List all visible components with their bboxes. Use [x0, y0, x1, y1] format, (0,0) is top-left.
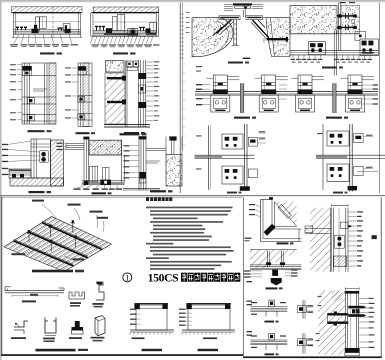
detail A4 left labels: [65, 67, 78, 118]
detail B4 hanger rods with bolt assemblies: [334, 2, 357, 76]
bottom-left sheet left border: [1, 198, 3, 356]
detail B5: horizontal rail lines: [195, 66, 378, 95]
bottom-left sheet bottom border: [1, 354, 243, 356]
detail A3 left labels: [10, 64, 22, 120]
detail B2 diagonal braces and panel edge: [213, 20, 240, 46]
detail A8: jamb section with concrete column: [123, 136, 182, 190]
elevation: transverse section box: [129, 303, 174, 339]
isometric ceiling panel field: [4, 217, 112, 272]
bottom-right sheet bottom border: [243, 356, 382, 358]
elevation longitudinal caption: [198, 349, 219, 351]
circled detail number 1: [123, 273, 132, 283]
detail A5 right leader labels: [146, 61, 159, 121]
detail B5 assembly 2: [255, 75, 288, 112]
detail D6b caption: [265, 353, 279, 355]
detail D4: upper wall vertical section with mullion: [305, 204, 353, 272]
detail D6a: horizontal stack joint upper: [250, 300, 287, 317]
detail D6a caption: [265, 321, 279, 323]
detail B7 caption: [333, 192, 348, 194]
detail B3: sloped concrete mass with anchor and brace: [251, 18, 290, 57]
detail A1: wall horizontal section, hatched slab band: [12, 7, 83, 39]
detail B5 labels: [196, 84, 378, 105]
scan edge top: [0, 0, 385, 3]
detail A6: base corner section with hatched slab: [9, 139, 64, 186]
profile: galvanized box piece: [91, 316, 106, 342]
detail A1 leader lines and labels: [10, 34, 78, 47]
detail D6b: horizontal stack joint lower: [250, 333, 287, 350]
detail B4: roof slab concrete (speckled rects): [290, 6, 360, 34]
detail B6 caption: [227, 192, 242, 194]
detail A8 bottom caption: [150, 190, 173, 192]
detail A7 leaders and labels: [57, 143, 123, 190]
detail B4 ceiling lines: [290, 51, 378, 55]
main title 150CS...: [148, 271, 241, 284]
detail B7: vertical mullion joint (right): [316, 124, 385, 192]
detail B5 captions: [234, 117, 348, 119]
detail A7: soffit corner section with dense hatch: [66, 137, 125, 185]
detail B4 right bracket cluster: [355, 31, 379, 55]
detail D7: lower wall section dense hatch: [318, 287, 366, 356]
elevation: longitudinal section box: [181, 303, 235, 339]
detail D5b: mullion cross joint lower: [297, 333, 313, 353]
detail A4 caption: [76, 132, 96, 134]
detail D2 labels: [244, 269, 298, 277]
isometric ceiling leader labels: [12, 200, 109, 261]
profile: carrier runner section: [69, 292, 85, 307]
detail B5 assembly 4: [341, 75, 374, 112]
isometric caption: [32, 270, 84, 273]
profile: J channel clip: [43, 318, 56, 343]
detail A5 caption: [120, 133, 147, 135]
detail A8 left labels: [124, 145, 140, 178]
detail B5 center glass bar right pair: [333, 83, 336, 113]
profile: 150C panel long section: [5, 287, 64, 303]
top-left sheet right border with ticks: [180, 3, 189, 193]
detail A2 leader lines and labels: [92, 44, 160, 47]
profile: hook bracket: [11, 321, 28, 339]
detail B5 center glass bar left pair: [240, 83, 243, 113]
profile: tee profile: [69, 321, 83, 339]
detail B6: vertical mullion joint (left): [195, 124, 267, 191]
detail A2 caption: [113, 52, 136, 54]
detail A4: vertical wall section V2: [78, 63, 92, 127]
detail B2: curved concrete parapet mass (speckled): [192, 18, 233, 57]
detail A8 top caption: [124, 132, 145, 134]
detail D4 right leader labels: [349, 211, 377, 266]
detail B5 assembly 3: [291, 75, 324, 112]
svg-text:1: 1: [125, 274, 129, 283]
isometric ceiling hangers: [27, 220, 78, 252]
notes text lines: [146, 207, 234, 270]
detail B5 assembly 1: [206, 75, 239, 112]
detail D1 caption: [277, 242, 294, 244]
detail A2: wall horizontal section with ground hatch: [90, 7, 159, 44]
detail B row1 captions: [228, 62, 343, 69]
detail D2 caption: [266, 287, 283, 289]
bottom sheets divider: [242, 198, 244, 357]
notes heading: [146, 197, 172, 201]
detail B1: coping top assembly with leaders: [214, 3, 266, 19]
detail D2: stack joint section with center bolt: [250, 250, 301, 286]
detail A5: vertical section with concrete block and anchors: [104, 60, 150, 128]
detail A3: vertical wall section V1: [22, 63, 56, 124]
detail D1 labels: [245, 204, 261, 241]
right sheet edge labels: [247, 281, 253, 336]
horizontal sheet separator: [0, 196, 385, 198]
profiles caption: [36, 349, 89, 352]
profile: hanger clip section: [93, 282, 105, 307]
bottom-right sheet right border: [380, 198, 382, 359]
detail B2 scale bar: [243, 58, 251, 59]
detail A3 caption: [28, 130, 52, 132]
detail D7 leader labels: [316, 296, 375, 348]
detail A7 caption: [92, 192, 112, 194]
detail D5a: mullion cross joint upper: [297, 300, 313, 319]
scan edge left: [0, 0, 2, 360]
detail D1: corner plan with diagonal brace: [261, 197, 302, 241]
elevation transverse caption: [142, 349, 163, 351]
isometric ceiling carrier runners: [14, 221, 103, 266]
detail B4 mid bracket cluster: [308, 42, 325, 55]
elevation transverse labels: [130, 309, 141, 325]
svg-text:150CS: 150CS: [148, 271, 179, 284]
detail A6 caption: [29, 191, 52, 193]
detail A1 caption: [40, 52, 62, 54]
detail B4 bottom leader labels: [291, 55, 373, 62]
detail A6 left labels: [2, 141, 40, 175]
elevation longitudinal labels: [179, 309, 192, 326]
top-right sheet right border: [379, 3, 381, 193]
